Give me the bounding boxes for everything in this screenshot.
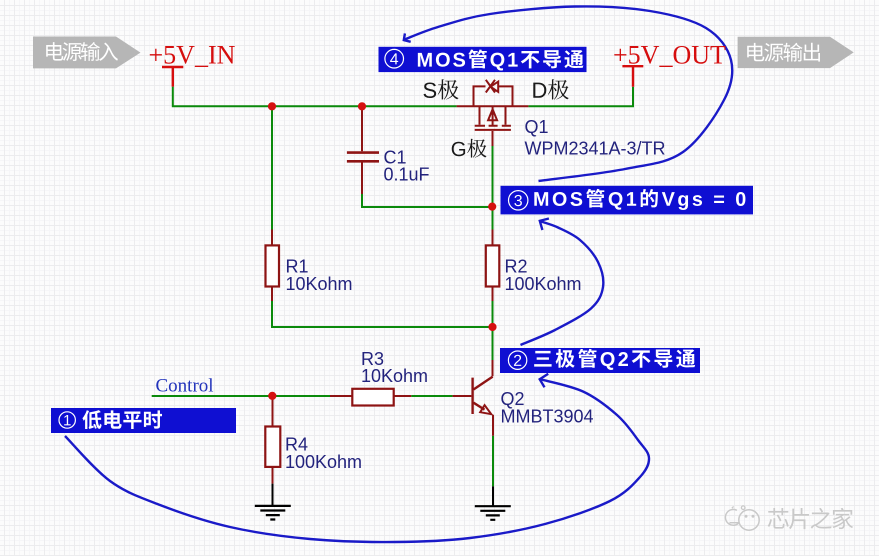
svg-text:100Kohm: 100Kohm: [285, 452, 362, 472]
svg-text:+5V_IN: +5V_IN: [149, 41, 236, 70]
svg-text:WPM2341A-3/TR: WPM2341A-3/TR: [525, 139, 666, 159]
svg-text:100Kohm: 100Kohm: [505, 274, 582, 294]
svg-text:Q1: Q1: [525, 117, 549, 137]
svg-text:Control: Control: [156, 375, 214, 396]
svg-text:10Kohm: 10Kohm: [361, 366, 428, 386]
svg-text:10Kohm: 10Kohm: [286, 274, 353, 294]
svg-text:+5V_OUT: +5V_OUT: [613, 41, 726, 70]
svg-text:0.1uF: 0.1uF: [384, 165, 430, 185]
svg-text:MMBT3904: MMBT3904: [501, 406, 594, 426]
